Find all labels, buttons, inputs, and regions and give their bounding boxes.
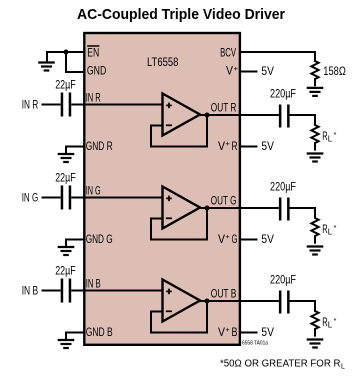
svg-text:+: + bbox=[234, 64, 239, 73]
wire EN pin bbox=[46, 51, 85, 53]
wire GND R pin bbox=[65, 146, 85, 148]
svg-text:220µF: 220µF bbox=[270, 182, 296, 194]
wire V+ pin to 5V bbox=[240, 71, 258, 73]
svg-text:*: * bbox=[334, 223, 337, 232]
op-amp A3 (B channel) bbox=[163, 280, 201, 322]
wire junction to GND pin bbox=[66, 52, 85, 72]
svg-text:GND: GND bbox=[87, 66, 106, 78]
wire C3 to IN B pin and op-amp + input bbox=[71, 290, 162, 292]
svg-text:OUT G: OUT G bbox=[211, 196, 237, 208]
op-amp A2 (G channel) bbox=[163, 187, 201, 229]
svg-text:G: G bbox=[232, 234, 238, 246]
wire A3 output to C6 bbox=[199, 300, 279, 302]
ground (GND R) bbox=[58, 147, 75, 163]
resistor RL (R channel) bbox=[311, 124, 318, 151]
svg-text:L: L bbox=[328, 228, 333, 237]
svg-text:V: V bbox=[218, 327, 225, 339]
svg-text:22µF: 22µF bbox=[55, 80, 75, 92]
node EN/GND junction bbox=[64, 50, 69, 55]
capacitor C4 220uF bbox=[279, 105, 290, 128]
svg-text:IN R: IN R bbox=[86, 93, 101, 105]
wire feedback loop A1 bbox=[151, 115, 207, 147]
svg-text:IN B: IN B bbox=[86, 279, 101, 291]
svg-text:IN G: IN G bbox=[86, 186, 101, 198]
svg-text:IN G: IN G bbox=[22, 193, 39, 205]
svg-text:V: V bbox=[218, 141, 225, 153]
resistor RL (G) label bbox=[322, 223, 336, 237]
svg-text:L: L bbox=[341, 364, 345, 371]
capacitor C6 220uF bbox=[279, 291, 290, 314]
node OUT B junction bbox=[205, 299, 210, 304]
wire A2 output to C5 bbox=[199, 207, 279, 209]
op-amp A1 (R channel) bbox=[163, 94, 201, 136]
wire C2 to IN G pin and op-amp + input bbox=[71, 197, 162, 199]
wire V+ R pin to 5V bbox=[240, 146, 258, 148]
ground (GND G) bbox=[58, 240, 75, 256]
svg-text:BCV: BCV bbox=[220, 48, 236, 60]
wire GND B pin bbox=[65, 332, 85, 334]
resistor RL (B) label bbox=[322, 316, 336, 330]
capacitor C1 22uF bbox=[61, 93, 71, 117]
svg-text:158Ω: 158Ω bbox=[323, 66, 346, 78]
wire C4 to RL (R) bbox=[290, 115, 315, 125]
op-amp U1 LT6558 package body bbox=[84, 33, 240, 345]
svg-text:5V: 5V bbox=[261, 66, 274, 78]
svg-text:L: L bbox=[328, 135, 333, 144]
node OUT G junction bbox=[205, 206, 210, 211]
svg-text:GND R: GND R bbox=[86, 141, 113, 153]
svg-text:6558 TA01a: 6558 TA01a bbox=[242, 341, 269, 347]
svg-text:IN B: IN B bbox=[22, 286, 39, 298]
wire feedback loop A3 bbox=[151, 301, 207, 333]
wire C1 to IN R pin and op-amp + input bbox=[71, 104, 162, 106]
svg-text:+: + bbox=[225, 232, 230, 241]
resistor R1 158ohm bbox=[311, 60, 318, 86]
wire feedback loop A2 bbox=[151, 208, 207, 240]
svg-text:AC-Coupled Triple Video Driver: AC-Coupled Triple Video Driver bbox=[77, 6, 285, 23]
svg-text:IN R: IN R bbox=[22, 100, 39, 112]
wire V+ G pin to 5V bbox=[240, 239, 258, 241]
ground (RL B) bbox=[307, 340, 324, 348]
capacitor C2 22uF bbox=[61, 186, 71, 210]
pin label V+ R bbox=[218, 139, 238, 153]
wire BCV pin to R1 bbox=[239, 52, 315, 61]
svg-text:OUT R: OUT R bbox=[211, 103, 237, 115]
wire C6 to RL (B) bbox=[290, 301, 315, 311]
svg-text:L: L bbox=[328, 321, 333, 330]
pin label EN (with overline) bbox=[87, 46, 99, 60]
resistor RL (R) label bbox=[322, 130, 336, 144]
svg-text:OUT B: OUT B bbox=[211, 289, 237, 301]
svg-text:R: R bbox=[232, 141, 238, 153]
svg-text:+: + bbox=[225, 325, 230, 334]
wire GND G pin bbox=[65, 239, 85, 241]
resistor RL (G channel) bbox=[311, 217, 318, 244]
svg-text:*: * bbox=[334, 130, 337, 139]
wire C5 to RL (G) bbox=[290, 208, 315, 218]
capacitor C3 22uF bbox=[61, 279, 71, 303]
svg-text:+: + bbox=[225, 139, 230, 148]
svg-text:22µF: 22µF bbox=[55, 173, 75, 185]
svg-text:5V: 5V bbox=[261, 234, 274, 246]
footnote *50ohm OR GREATER FOR RL bbox=[220, 358, 345, 370]
svg-text:GND B: GND B bbox=[86, 327, 113, 339]
ground (RL G) bbox=[307, 247, 324, 255]
svg-text:LT6558: LT6558 bbox=[147, 57, 178, 69]
svg-text:V: V bbox=[226, 66, 233, 78]
resistor RL (B channel) bbox=[311, 310, 318, 337]
wire V+ B pin to 5V bbox=[240, 332, 258, 334]
pin label V+ G bbox=[218, 232, 238, 246]
svg-text:GND G: GND G bbox=[86, 234, 113, 246]
svg-text:5V: 5V bbox=[261, 141, 274, 153]
capacitor C5 220uF bbox=[279, 198, 290, 221]
ground (GND B) bbox=[58, 333, 75, 349]
wire IN B to C3 bbox=[42, 290, 61, 292]
ground (EN) bbox=[38, 52, 55, 71]
wire IN G to C2 bbox=[42, 197, 61, 199]
ground (RL R) bbox=[307, 154, 324, 162]
wire IN R to C1 bbox=[42, 104, 61, 106]
svg-text:22µF: 22µF bbox=[55, 266, 75, 278]
pin label V+ bbox=[226, 64, 239, 78]
svg-text:5V: 5V bbox=[261, 327, 274, 339]
svg-text:*50Ω OR GREATER FOR R: *50Ω OR GREATER FOR R bbox=[220, 358, 341, 369]
svg-text:220µF: 220µF bbox=[270, 275, 296, 287]
svg-text:*: * bbox=[334, 316, 337, 325]
svg-text:220µF: 220µF bbox=[270, 89, 296, 101]
pin label V+ B bbox=[218, 325, 238, 339]
ground (R1) bbox=[307, 88, 324, 96]
svg-text:B: B bbox=[232, 327, 238, 339]
svg-text:V: V bbox=[218, 234, 225, 246]
wire A1 output to C4 bbox=[199, 114, 279, 116]
svg-text:EN: EN bbox=[87, 48, 99, 60]
node OUT R junction bbox=[205, 113, 210, 118]
